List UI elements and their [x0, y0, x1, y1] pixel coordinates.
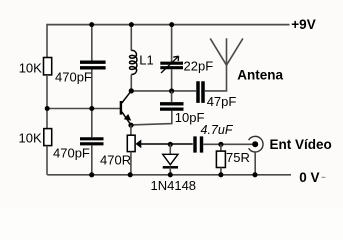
- wire left branch middle: [46, 75, 48, 129]
- wire stub after 0V: [322, 176, 326, 178]
- wire 4.7uF to jack: [203, 143, 252, 145]
- svg-text:10K: 10K: [19, 61, 42, 76]
- wire collector horizontal: [131, 90, 196, 92]
- resistor R 10K lower: [44, 129, 52, 146]
- wire 22pF lower: [171, 69, 173, 91]
- node base-left junction: [45, 106, 50, 111]
- wire left branch upper: [46, 24, 48, 58]
- transistor Q1 base bar: [120, 101, 122, 115]
- transistor Q1 emitter arrow: [124, 114, 131, 121]
- svg-text:22pF: 22pF: [184, 59, 214, 74]
- connector J1 Ent Video jack ring: [249, 136, 263, 152]
- capacitor C 47pF: [198, 81, 203, 103]
- svg-text:470pF: 470pF: [55, 70, 92, 85]
- node rail top 2: [129, 22, 134, 27]
- node 75R junction: [218, 142, 223, 147]
- wire wiper line: [141, 143, 193, 145]
- wire emitter to 470R: [130, 125, 132, 135]
- inductor L1: [129, 50, 137, 74]
- svg-text:0 V: 0 V: [299, 170, 319, 185]
- capacitor C 470pF lower: [80, 139, 104, 144]
- node rail bottom 2: [128, 172, 133, 177]
- resistor R 10K upper: [44, 58, 52, 75]
- capacitor C 10pF: [160, 104, 184, 109]
- svg-text:4.7uF: 4.7uF: [201, 123, 234, 137]
- transistor Q1 collector lead: [122, 91, 131, 103]
- resistor R 75R: [216, 151, 225, 167]
- wire second branch middle: [91, 69, 93, 137]
- node collector junction: [129, 88, 134, 93]
- antenna: [210, 38, 243, 65]
- capacitor trimmer 22pF: [160, 63, 183, 67]
- wire L1 branch lower: [130, 75, 132, 91]
- wire 0V bottom rail: [47, 174, 291, 176]
- svg-text:Antena: Antena: [237, 68, 283, 83]
- svg-text:Ent Vídeo: Ent Vídeo: [270, 137, 332, 152]
- wire jack to rail: [254, 152, 256, 175]
- wire diode lower stub: [169, 167, 171, 175]
- diode D 1N4148: [163, 154, 178, 164]
- node rail bottom 1: [89, 172, 94, 177]
- wire 10pF to emitter: [131, 111, 172, 125]
- wire L1 branch upper: [130, 25, 132, 51]
- wire second branch lower: [91, 145, 93, 174]
- node rail bottom 5: [252, 172, 257, 177]
- svg-text:470R: 470R: [100, 153, 131, 168]
- wire 10pF upper stub: [171, 91, 173, 102]
- trimmer arrow: [161, 56, 179, 73]
- svg-text:L1: L1: [139, 52, 153, 67]
- connector J1 center pin: [252, 141, 258, 147]
- svg-text:10K: 10K: [19, 131, 42, 146]
- transistor Q1 emitter lead: [122, 112, 131, 125]
- wire +9V top rail: [47, 24, 290, 26]
- node mid junction: [89, 106, 94, 111]
- capacitor C 470pF upper: [80, 62, 106, 68]
- node diode junction: [168, 142, 173, 147]
- svg-text:75R: 75R: [226, 150, 250, 165]
- svg-text:+9V: +9V: [291, 17, 315, 32]
- node rail top 1: [89, 22, 94, 27]
- wire 75R upper stub: [220, 144, 222, 151]
- wire 22pF branch upper: [171, 25, 173, 63]
- node rail bottom 4: [218, 172, 223, 177]
- node emitter junction: [128, 123, 133, 128]
- wire base line: [47, 108, 121, 110]
- wire 470R to rail: [130, 152, 132, 175]
- resistor trimmer 470R: [127, 135, 135, 151]
- node rail bottom 3: [168, 172, 173, 177]
- wire left branch lower: [46, 146, 48, 175]
- svg-text:470pF: 470pF: [53, 146, 90, 161]
- wire diode upper stub: [169, 144, 171, 154]
- diode cathode bar: [163, 166, 178, 169]
- wire second branch upper: [91, 25, 93, 61]
- node 22pF junction: [169, 88, 174, 93]
- wire 47pF to antenna: [205, 38, 227, 91]
- svg-text:47pF: 47pF: [207, 94, 237, 109]
- svg-text:1N4148: 1N4148: [151, 178, 197, 193]
- capacitor C 4.7uF: [195, 136, 202, 152]
- trimmer wiper arrow 470R: [136, 140, 142, 149]
- node rail top 3: [169, 22, 174, 27]
- wire 75R lower stub: [220, 168, 222, 175]
